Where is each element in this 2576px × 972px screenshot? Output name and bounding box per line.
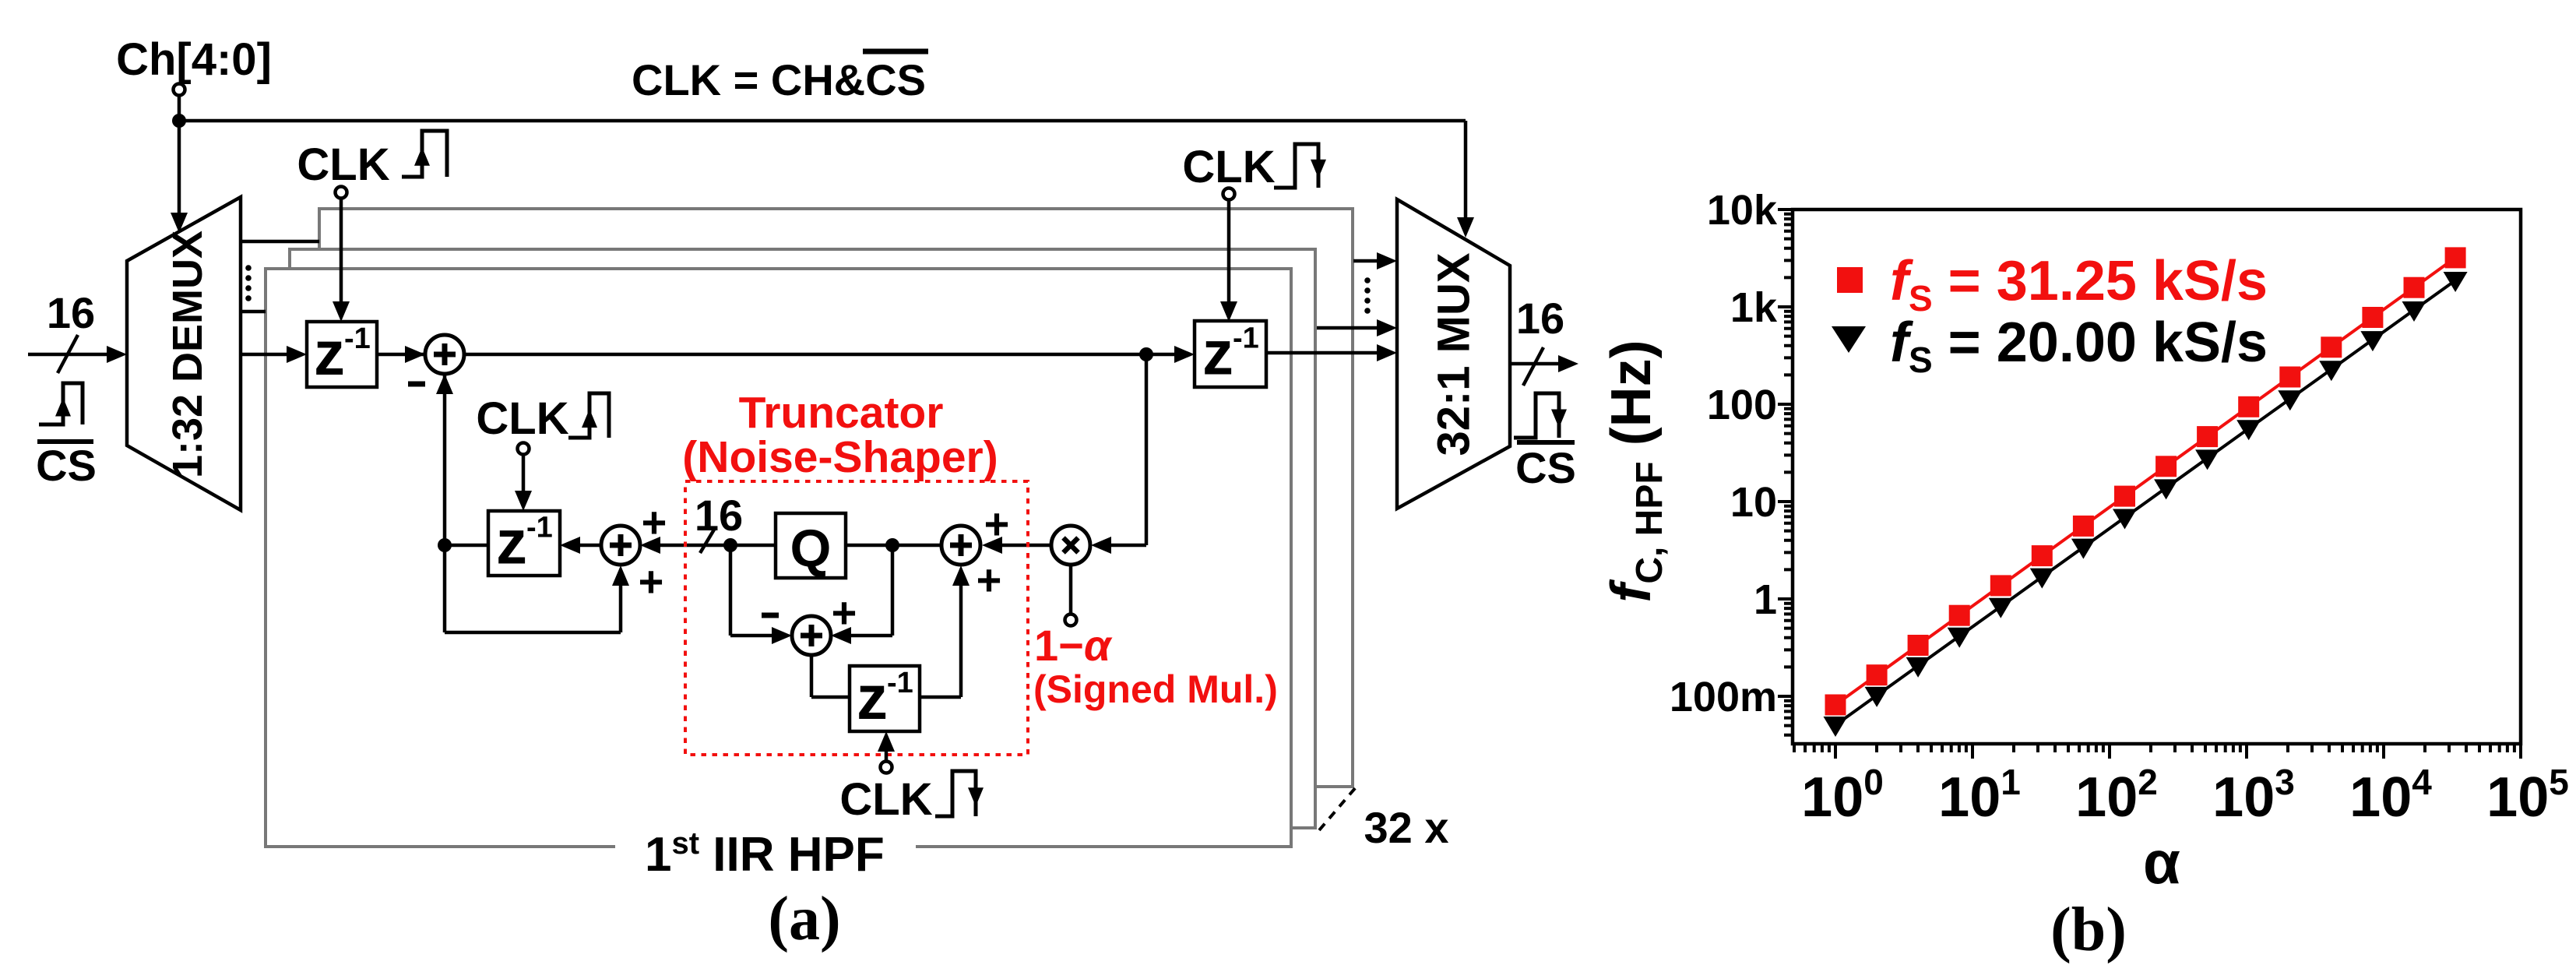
svg-text:+: + [832,588,857,637]
svg-text:(Signed Mul.): (Signed Mul.) [1033,667,1278,711]
svg-text:CLK: CLK [476,393,568,444]
svg-text:+: + [977,555,1002,604]
svg-text:(a): (a) [768,885,840,953]
svg-text:100: 100 [1707,382,1777,428]
svg-text:-1: -1 [526,512,553,544]
svg-text:16: 16 [695,491,743,540]
svg-text:fS = 20.00 kS/s: fS = 20.00 kS/s [1890,312,2268,380]
svg-text:-1: -1 [1233,322,1259,355]
svg-text:-1: -1 [887,667,913,699]
svg-text:z: z [1202,319,1233,388]
svg-text:-1: -1 [344,322,371,355]
svg-text:10: 10 [1730,479,1777,526]
svg-text:32:1 MUX: 32:1 MUX [1429,252,1480,456]
svg-text:32 x: 32 x [1364,803,1449,852]
svg-text:CLK: CLK [1182,142,1275,192]
svg-text:100m: 100m [1670,674,1777,720]
svg-text:z: z [314,319,345,388]
svg-text:CS: CS [1515,443,1576,492]
svg-text:+: + [639,557,664,606]
svg-text:CLK: CLK [839,774,932,825]
svg-text:Ch[4:0]: Ch[4:0] [116,34,272,85]
svg-text:z: z [496,508,527,577]
svg-text:16: 16 [47,288,95,337]
svg-text:α: α [2143,828,2180,896]
svg-text:1: 1 [1754,576,1777,623]
svg-text:(b): (b) [2050,896,2127,964]
svg-text:(Noise-Shaper): (Noise-Shaper) [682,432,998,482]
svg-text:1−α: 1−α [1034,621,1113,670]
svg-text:Truncator: Truncator [739,388,944,438]
svg-text:16: 16 [1516,294,1564,343]
svg-text:1k: 1k [1730,284,1778,331]
svg-text:z: z [857,663,888,732]
svg-text:10k: 10k [1707,187,1778,234]
svg-text:Q: Q [790,519,832,578]
svg-text:fS = 31.25 kS/s: fS = 31.25 kS/s [1890,250,2268,319]
svg-text:1:32 DEMUX: 1:32 DEMUX [164,231,211,478]
svg-text:CS: CS [36,441,97,490]
svg-text:CLK = CH&CS: CLK = CH&CS [632,55,926,104]
svg-text:CLK: CLK [297,139,389,190]
